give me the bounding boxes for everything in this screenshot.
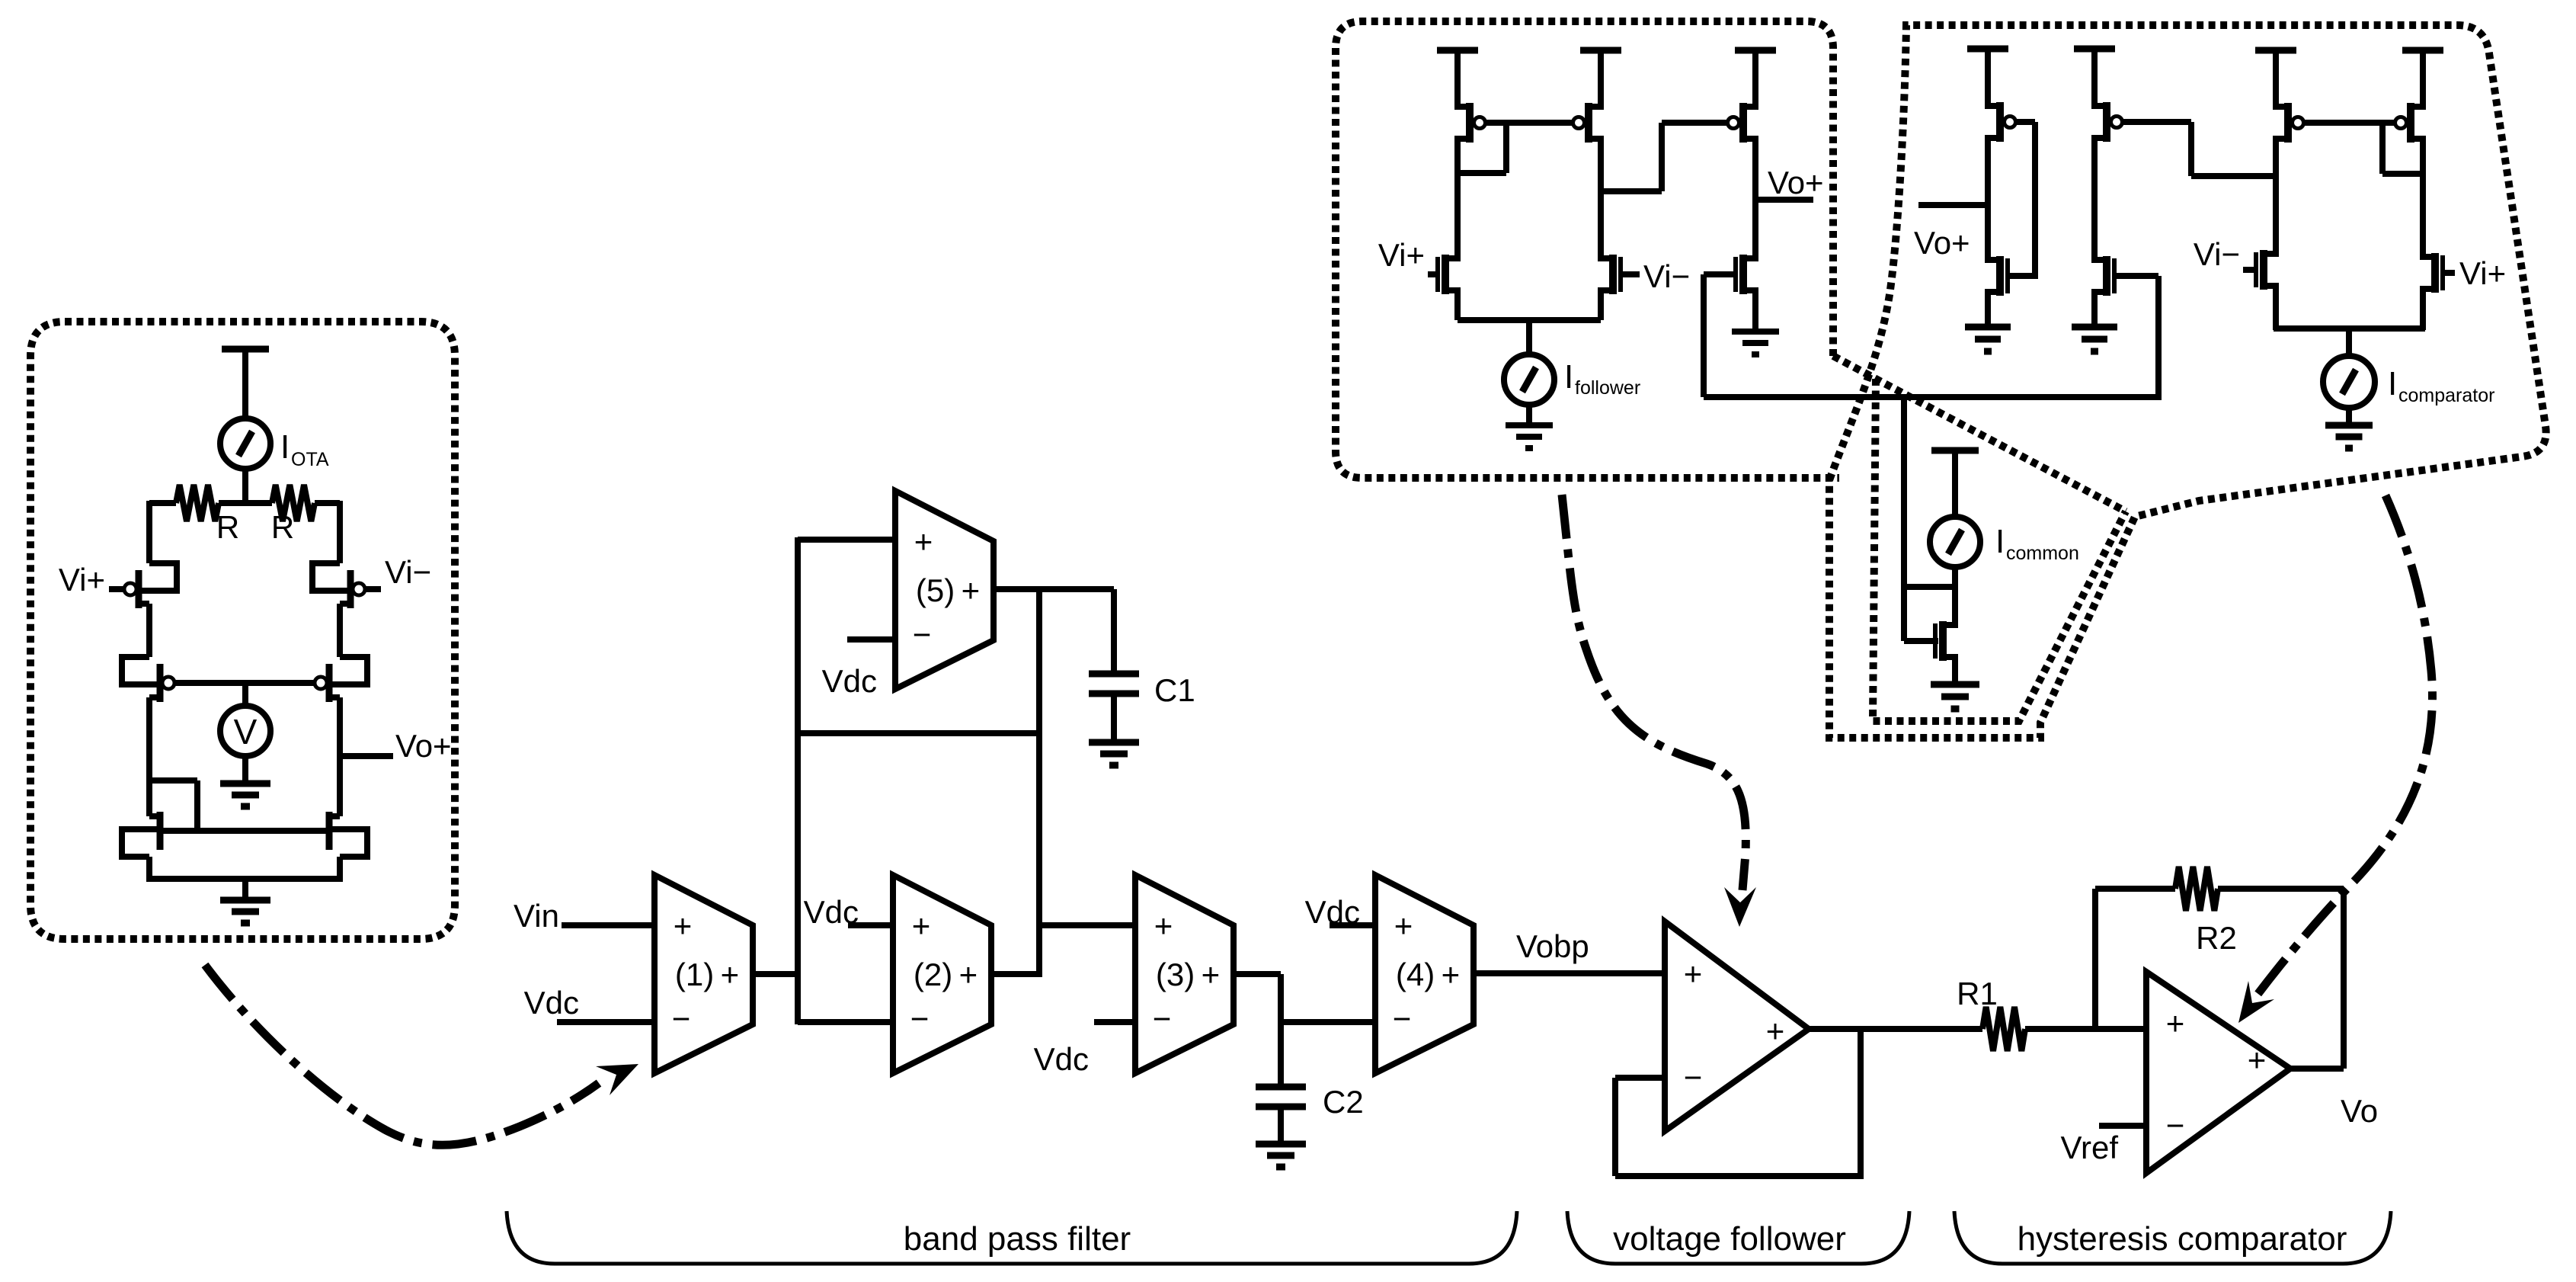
svg-text:Vobp: Vobp	[1516, 928, 1589, 964]
svg-text:−: −	[2166, 1107, 2185, 1143]
svg-text:I: I	[1995, 523, 2005, 560]
svg-text:−: −	[1684, 1059, 1703, 1095]
svg-text:Vref: Vref	[2061, 1130, 2119, 1165]
svg-text:C1: C1	[1154, 672, 1195, 708]
svg-text:Vi−: Vi−	[385, 554, 431, 590]
svg-text:(5) +: (5) +	[916, 572, 980, 608]
svg-text:voltage follower: voltage follower	[1613, 1220, 1846, 1258]
svg-text:+: +	[2248, 1042, 2267, 1078]
svg-text:+: +	[1684, 956, 1703, 992]
svg-text:Vi+: Vi+	[2459, 255, 2506, 291]
svg-text:Vi+: Vi+	[59, 562, 105, 598]
svg-text:(1) +: (1) +	[675, 957, 739, 992]
svg-text:follower: follower	[1575, 377, 1640, 399]
svg-text:Vi−: Vi−	[2194, 236, 2240, 272]
svg-text:Vi−: Vi−	[1643, 258, 1690, 294]
svg-text:Vdc: Vdc	[822, 663, 877, 699]
svg-text:−: −	[1393, 1001, 1412, 1037]
svg-text:R1: R1	[1957, 976, 1998, 1011]
svg-text:R: R	[216, 509, 239, 545]
svg-text:Vdc: Vdc	[1034, 1041, 1089, 1077]
svg-text:R2: R2	[2196, 920, 2237, 956]
svg-text:I: I	[280, 428, 290, 466]
svg-text:Vi+: Vi+	[1378, 237, 1425, 273]
svg-text:(2) +: (2) +	[914, 957, 978, 992]
svg-text:I: I	[1564, 358, 1573, 396]
svg-text:+: +	[914, 524, 933, 559]
svg-text:R: R	[271, 509, 294, 545]
svg-text:Vo+: Vo+	[1768, 165, 1824, 200]
svg-text:−: −	[672, 1001, 691, 1037]
svg-text:hysteresis comparator: hysteresis comparator	[2018, 1220, 2347, 1258]
svg-text:−: −	[1153, 1001, 1172, 1037]
svg-text:band pass filter: band pass filter	[904, 1220, 1131, 1258]
svg-text:Vdc: Vdc	[1305, 894, 1360, 930]
svg-text:I: I	[2388, 365, 2397, 402]
svg-text:(3) +: (3) +	[1156, 957, 1220, 992]
svg-text:+: +	[1154, 908, 1173, 944]
svg-text:Vin: Vin	[514, 898, 559, 934]
svg-text:−: −	[910, 1001, 930, 1037]
svg-text:+: +	[1766, 1013, 1785, 1049]
svg-text:+: +	[1394, 908, 1413, 944]
svg-text:Vo: Vo	[2341, 1093, 2378, 1129]
svg-text:+: +	[2166, 1005, 2185, 1041]
svg-text:V: V	[234, 712, 258, 752]
svg-text:C2: C2	[1323, 1084, 1364, 1120]
svg-text:+: +	[912, 908, 931, 944]
svg-text:Vdc: Vdc	[524, 985, 579, 1021]
svg-text:OTA: OTA	[291, 449, 329, 470]
svg-text:Vo+: Vo+	[1914, 225, 1970, 261]
svg-text:Vo+: Vo+	[395, 728, 452, 764]
svg-text:−: −	[913, 617, 932, 652]
svg-text:Vdc: Vdc	[804, 894, 859, 930]
svg-text:+: +	[674, 908, 693, 944]
svg-text:comparator: comparator	[2398, 385, 2494, 406]
svg-text:common: common	[2006, 543, 2079, 564]
svg-text:(4) +: (4) +	[1396, 957, 1460, 992]
